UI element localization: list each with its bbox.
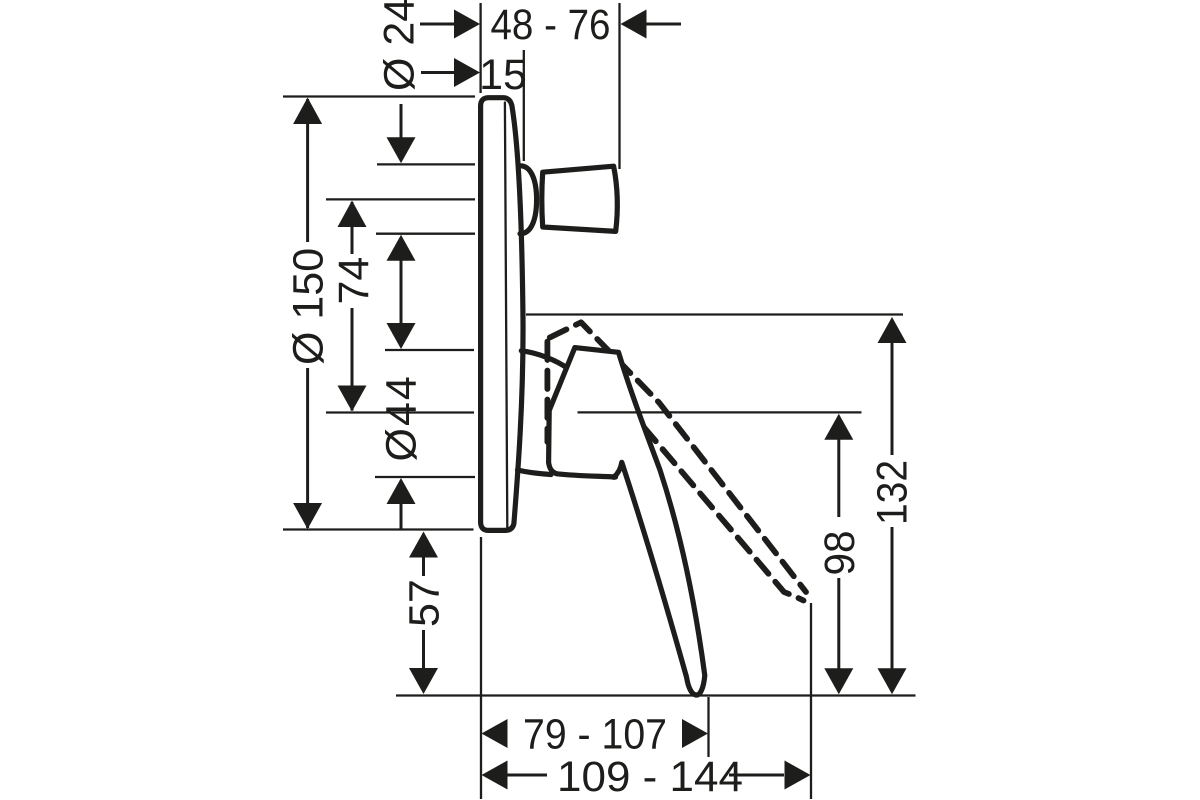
- escutcheon plate face line (thin): [505, 103, 507, 528]
- extension line stub face vertical (48-76): [618, 3, 620, 169]
- arrow 74 down: [338, 386, 367, 412]
- svg-text:79 - 107: 79 - 107: [523, 711, 667, 759]
- hub base lower arc: [518, 470, 552, 475]
- extension line plate bottom (Ø150 bottom): [283, 528, 474, 530]
- dimension 132 stem: [891, 341, 894, 455]
- dimension 109-144 stems: [506, 774, 547, 777]
- extension line top of plate (Ø150 top): [283, 95, 475, 97]
- dimension 15 stem: [421, 71, 456, 74]
- extension line hub top (Ø44 top): [385, 349, 474, 351]
- svg-text:Ø 150: Ø 150: [285, 248, 333, 365]
- svg-text:98: 98: [816, 531, 864, 576]
- arrow 132 up: [878, 317, 907, 343]
- hub base upper arc: [521, 351, 569, 370]
- valve collar bulge: [520, 166, 537, 234]
- extension line plate-left vertical bottom: [480, 537, 482, 799]
- arrow Ø44 up (outside below): [387, 478, 416, 504]
- dashed handle hub top + right slope + lever upper edge: [550, 322, 806, 592]
- extension line handle axis right (98 top, over hub): [578, 411, 862, 413]
- extension line solid tip vertical bottom: [707, 697, 709, 757]
- extension line dashed tip vertical bottom: [810, 603, 812, 799]
- dashed handle lever lower edge: [625, 405, 804, 601]
- arrow 109-144 right: [785, 761, 811, 790]
- handle (solid position): [549, 348, 705, 695]
- arrow 74 up: [338, 201, 367, 228]
- extension line stub bottom (Ø24 bottom): [376, 233, 475, 235]
- valve stub knob: [542, 166, 618, 231]
- extension line baseline handle tip: [396, 694, 916, 696]
- arrow 57 down: [409, 668, 438, 694]
- dimension 48-76 stems: [420, 23, 456, 26]
- arrow 48-76 left (points right at wall): [454, 10, 480, 39]
- extension line dashed-handle top (132 top): [526, 313, 903, 315]
- arrow Ø150 up: [293, 98, 322, 125]
- arrow 109-144 left: [482, 761, 508, 790]
- extension line hub bottom (Ø44 bottom): [375, 476, 475, 478]
- arrow 57 up: [409, 532, 438, 558]
- dimension Ø24 / Ø44 stem: [400, 104, 403, 140]
- extension line stub top (Ø24 top): [377, 163, 475, 165]
- arrow 15 (points right at wall): [454, 58, 480, 87]
- arrow 98 up: [824, 414, 853, 440]
- svg-text:132: 132: [869, 460, 917, 525]
- extension line handle axis left (74 bottom): [326, 411, 474, 413]
- escutcheon plate outline: [481, 98, 523, 531]
- extension line plate face vertical (15): [523, 50, 525, 161]
- arrow Ø150 down: [293, 503, 322, 529]
- svg-text:Ø44: Ø44: [378, 374, 426, 461]
- svg-text:109 - 144: 109 - 144: [557, 753, 743, 800]
- svg-text:Ø 24: Ø 24: [376, 0, 424, 91]
- dashed handle hub left edge: [545, 342, 551, 443]
- arrow 79-107 left: [482, 719, 508, 748]
- svg-text:74: 74: [330, 257, 378, 305]
- arrow Ø24 down (outside above): [387, 137, 416, 163]
- arrow 48-76 right (points left at stub face): [621, 10, 647, 39]
- dimension 57 stem: [422, 556, 425, 576]
- extension line stub axis (74 top): [326, 198, 475, 200]
- svg-text:57: 57: [401, 579, 449, 627]
- extension line wall plane vertical: [479, 3, 481, 93]
- svg-text:48 - 76: 48 - 76: [491, 1, 611, 49]
- dimension 74 stem: [351, 202, 354, 254]
- arrow Ø44 down (outside above): [387, 323, 416, 349]
- arrow 132 down: [878, 668, 907, 694]
- svg-text:15: 15: [479, 51, 527, 99]
- arrow 79-107 right: [682, 719, 708, 748]
- arrow 98 down: [824, 668, 853, 694]
- dimension Ø150 stem: [306, 99, 309, 242]
- dimension 98 stem: [837, 438, 840, 517]
- arrow Ø24 up (outside below): [387, 235, 416, 261]
